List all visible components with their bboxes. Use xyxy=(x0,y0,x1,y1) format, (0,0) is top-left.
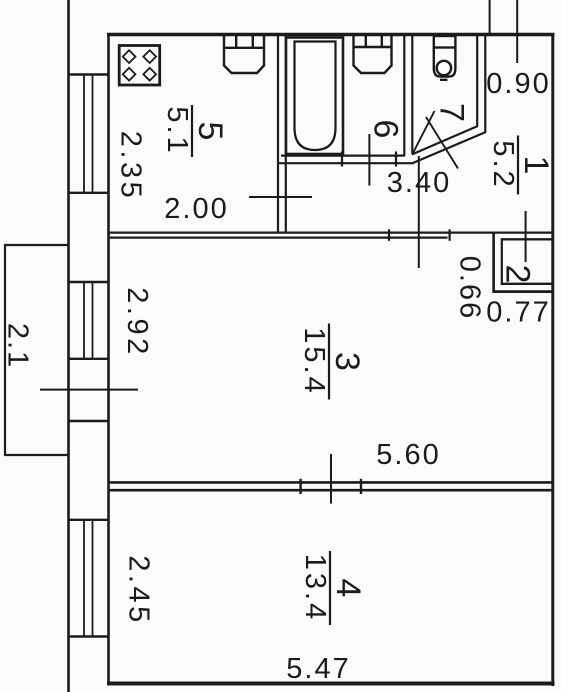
svg-text:2.45: 2.45 xyxy=(123,555,155,625)
door jamb tick room4 right xyxy=(360,479,362,494)
door swing line a xyxy=(413,111,435,154)
wall hall bottom lower line xyxy=(108,237,448,239)
wall toilet-hall face a xyxy=(476,36,478,127)
svg-text:2.92: 2.92 xyxy=(121,287,153,357)
wall hall bottom upper line xyxy=(108,232,552,234)
svg-text:5.47: 5.47 xyxy=(286,653,350,685)
room label 5 / 5.1 kitchen xyxy=(161,105,229,157)
wall bath bottom face b xyxy=(278,162,415,164)
bathroom sink xyxy=(354,36,392,73)
wall cap above kitchen window xyxy=(68,73,110,75)
svg-text:15.4: 15.4 xyxy=(298,327,330,395)
wall room3-room4 lower line xyxy=(108,489,552,492)
svg-text:3.40: 3.40 xyxy=(387,167,451,199)
svg-text:1: 1 xyxy=(517,156,555,175)
wall cap above room3 window xyxy=(68,281,110,283)
svg-text:5: 5 xyxy=(191,122,229,141)
wall toilet diagonal face a xyxy=(412,126,478,155)
svg-text:6: 6 xyxy=(367,120,405,139)
balcony left wall xyxy=(4,244,6,456)
wall top xyxy=(107,33,555,36)
svg-text:2.1: 2.1 xyxy=(2,323,34,369)
leader line closet top xyxy=(525,211,527,262)
wall kitchen-bath face b xyxy=(285,36,287,232)
window kitchen glazing line b xyxy=(92,75,94,193)
wall room3-room4 upper line xyxy=(108,481,552,484)
balcony top wall xyxy=(4,244,68,246)
svg-text:5.60: 5.60 xyxy=(376,439,440,471)
window room4 glazing line a xyxy=(83,520,85,637)
svg-text:2: 2 xyxy=(499,265,537,284)
room label 4 / 13.4 bedroom xyxy=(299,551,367,625)
svg-text:0.66: 0.66 xyxy=(454,256,486,320)
svg-text:5.2: 5.2 xyxy=(487,140,519,189)
dimension line 2.00 xyxy=(249,196,312,198)
closet top wall inner xyxy=(501,238,552,240)
window kitchen glazing line a xyxy=(83,75,85,193)
room label 3 / 15.4 living room xyxy=(298,324,366,400)
toilet xyxy=(434,36,456,80)
leader line 0.90 right xyxy=(516,0,518,63)
leader line 3.40 xyxy=(418,156,420,268)
svg-text:0.77: 0.77 xyxy=(486,297,550,329)
wall left inner face xyxy=(107,34,110,684)
dimension line 2.92 balcony xyxy=(40,389,138,391)
wall bath-toilet face a xyxy=(403,36,405,156)
door jamb tick bath right xyxy=(395,152,397,167)
door jamb tick room4 left xyxy=(299,479,301,494)
closet left wall outer xyxy=(492,233,495,293)
svg-text:2.35: 2.35 xyxy=(115,131,147,201)
wall right xyxy=(551,33,554,686)
door swing line b xyxy=(426,117,458,169)
wall bath bottom face a xyxy=(281,155,405,157)
stove xyxy=(119,46,160,86)
svg-text:3: 3 xyxy=(328,352,366,371)
closet bottom wall inner xyxy=(501,283,552,285)
window room3 glazing line b xyxy=(92,282,94,359)
window room3 glazing line a xyxy=(83,282,85,359)
door jamb tick hall right xyxy=(449,229,451,241)
door jamb tick bath left xyxy=(341,152,343,167)
leader line 5.60 door xyxy=(330,454,332,504)
wall left outer face xyxy=(67,0,70,692)
wall bath-toilet face b xyxy=(411,36,413,154)
closet bottom wall outer xyxy=(493,290,553,293)
closet left wall inner xyxy=(501,239,503,285)
wall kitchen-bath face a xyxy=(277,36,279,232)
door jamb tick hall left xyxy=(388,229,390,241)
svg-text:7: 7 xyxy=(433,103,471,122)
leader line 0.90 left xyxy=(489,0,491,35)
svg-text:0.90: 0.90 xyxy=(486,68,550,100)
room label 1 / 5.2 hall xyxy=(487,136,555,195)
wall cap above room4 window xyxy=(68,519,110,521)
svg-text:2.00: 2.00 xyxy=(164,193,228,225)
wall joint line left xyxy=(68,420,110,422)
svg-text:13.4: 13.4 xyxy=(299,554,331,622)
wall toilet diagonal face b xyxy=(414,132,486,163)
svg-text:5.1: 5.1 xyxy=(161,106,193,155)
wall toilet-hall face b xyxy=(484,36,486,133)
wall bottom xyxy=(107,682,555,686)
svg-text:4: 4 xyxy=(329,579,367,598)
balcony bottom wall xyxy=(4,454,68,456)
wall cap below room3 window xyxy=(68,358,110,360)
wall cap below room4 window xyxy=(68,635,110,637)
leader tick bath door xyxy=(368,134,370,186)
wall cap below kitchen window xyxy=(68,192,110,194)
kitchen sink xyxy=(224,36,264,73)
bathtub xyxy=(286,38,343,155)
window room4 glazing line b xyxy=(92,520,94,637)
